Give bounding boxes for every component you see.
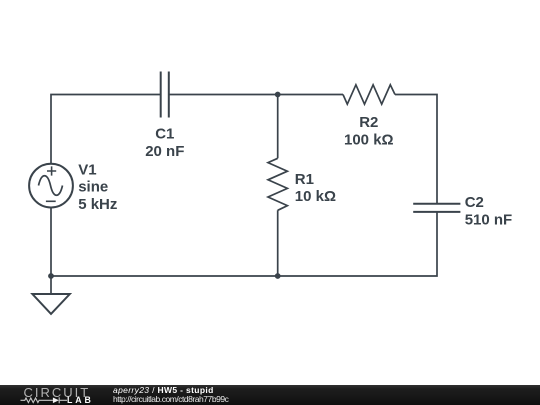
voltage source V1 — [29, 164, 73, 208]
capacitor C1 labels — [145, 126, 184, 160]
svg-text:R1: R1 — [295, 171, 314, 188]
footer title text — [113, 386, 228, 405]
wire top middle (C1 to R2) — [169, 94, 343, 96]
svg-text:R2: R2 — [359, 114, 378, 131]
wire ground stub — [50, 276, 52, 294]
node junction bottom (R1 / bottom rail) — [275, 273, 281, 279]
wire R1 branch upper — [277, 95, 279, 159]
voltage source V1 labels — [78, 162, 117, 213]
wire right vertical lower + bottom rail + left vertical lower — [51, 208, 437, 277]
svg-text:20 nF: 20 nF — [145, 143, 184, 160]
wire R1 branch lower — [277, 210, 279, 276]
wire top-right + right vertical upper (R2 to C2) — [395, 95, 437, 204]
capacitor C1 — [161, 72, 169, 118]
CircuitLab logo — [0, 385, 100, 405]
svg-text:C2: C2 — [465, 194, 484, 211]
svg-text:5 kHz: 5 kHz — [78, 196, 117, 213]
resistor R1 labels — [295, 171, 336, 205]
resistor R2 labels — [344, 114, 394, 148]
svg-text:sine: sine — [78, 179, 108, 196]
node junction top (R1 / top rail) — [275, 92, 281, 98]
footer bar — [0, 385, 540, 405]
svg-text:510 nF: 510 nF — [465, 211, 513, 228]
resistor R1 — [268, 158, 287, 210]
svg-text:V1: V1 — [78, 162, 96, 179]
resistor R2 — [343, 85, 395, 104]
wire left vertical upper + top-left horizontal (V1 to C1) — [51, 95, 161, 164]
capacitor C2 — [413, 204, 460, 212]
node junction ground — [48, 273, 54, 279]
svg-text:C1: C1 — [155, 126, 174, 143]
ground — [32, 294, 69, 314]
svg-text:LAB: LAB — [67, 394, 94, 404]
svg-text:10 kΩ: 10 kΩ — [295, 188, 336, 205]
svg-text:100 kΩ: 100 kΩ — [344, 132, 394, 149]
capacitor C2 labels — [465, 194, 513, 228]
